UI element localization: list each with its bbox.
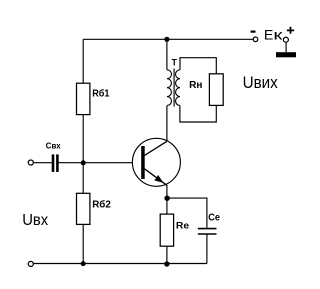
svg-text:T: T	[172, 58, 178, 68]
svg-text:Ек: Ек	[264, 27, 283, 43]
svg-text:Uвих: Uвих	[243, 74, 279, 92]
svg-text:Свх: Свх	[46, 141, 61, 151]
svg-text:Uвх: Uвх	[22, 212, 48, 229]
svg-text:Се: Се	[208, 212, 220, 223]
svg-text:Rн: Rн	[189, 80, 202, 91]
svg-text:Rе: Rе	[176, 219, 189, 230]
svg-text:Rб2: Rб2	[92, 198, 111, 210]
svg-text:Rб1: Rб1	[92, 88, 110, 100]
